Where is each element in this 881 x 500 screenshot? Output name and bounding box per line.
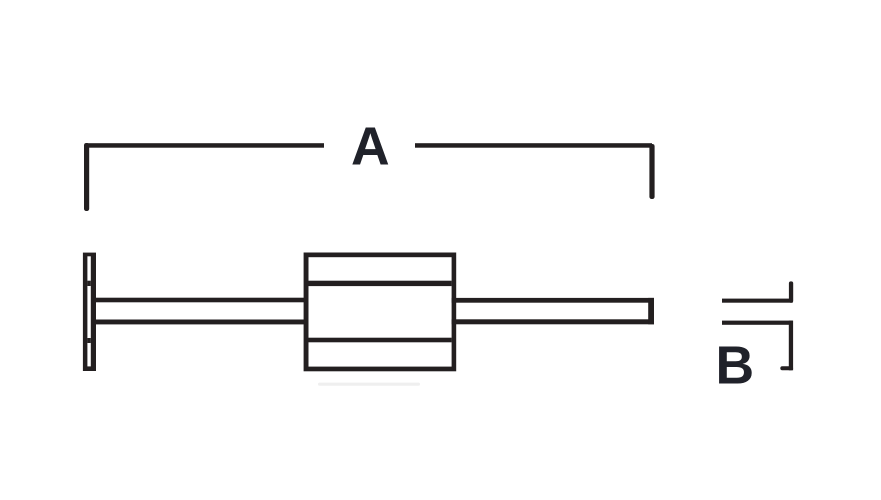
body outer rectangle bbox=[304, 253, 457, 372]
body lower internal line bbox=[309, 338, 452, 343]
body interior bbox=[309, 257, 452, 366]
dimension A line right segment bbox=[415, 143, 652, 148]
right shaft bottom line bbox=[452, 319, 654, 324]
flange crossing at body upper line bbox=[87, 281, 90, 286]
left shaft bottom line bbox=[96, 320, 309, 325]
dimension B top extension tick bbox=[789, 281, 793, 302]
right shaft top line bbox=[452, 298, 654, 303]
left shaft top line bbox=[96, 298, 309, 303]
faint scan shadow under body bbox=[318, 383, 420, 386]
dimension A right extension tick bbox=[649, 144, 654, 199]
svg-text:B: B bbox=[716, 336, 755, 395]
dimension B right vertical extension bbox=[789, 321, 793, 371]
body upper internal line bbox=[309, 281, 452, 286]
flange outer edge bbox=[83, 253, 96, 371]
dimension B bottom leader line bbox=[722, 321, 793, 325]
flange crossing at body lower line bbox=[87, 338, 90, 343]
svg-text:A: A bbox=[351, 118, 390, 177]
right shaft end cap bbox=[648, 298, 654, 324]
dimension A line left segment bbox=[86, 143, 324, 148]
dimension A left extension tick bbox=[84, 143, 89, 211]
dimension B bottom hook bbox=[780, 366, 793, 370]
dimension B top leader line bbox=[722, 299, 793, 303]
flange inner face line gap bbox=[87, 256, 90, 366]
